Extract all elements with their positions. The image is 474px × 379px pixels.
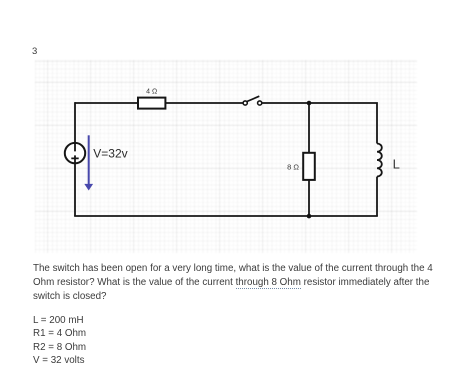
voltage source inner leads and plus: [71, 143, 78, 163]
voltage source V1 circle: [65, 143, 85, 163]
junction node top: [307, 101, 312, 106]
wire right below coil: [376, 177, 378, 216]
current arrow (blue): [88, 135, 90, 185]
resistor R1 4 Ohm: [138, 98, 165, 109]
wire bottom: [74, 215, 378, 217]
svg-text:L: L: [393, 157, 400, 172]
wire between R1 and switch: [165, 102, 243, 104]
switch S1 contact right: [258, 101, 262, 105]
junction node bottom: [307, 214, 312, 219]
wire middle branch bottom: [308, 180, 310, 216]
switch S1 blade: [247, 96, 259, 101]
switch S1 contact left: [243, 101, 247, 105]
grid canvas: [35, 60, 417, 253]
svg-text:4 Ω: 4 Ω: [146, 88, 157, 95]
wire top-left horizontal: [75, 102, 138, 104]
svg-text:8 Ω: 8 Ω: [287, 163, 299, 172]
problem number 3: [32, 47, 37, 57]
svg-text:V=32v: V=32v: [93, 146, 127, 160]
wire switch to top-right corner: [262, 102, 378, 143]
given values list: [33, 314, 86, 368]
wire left vertical: [74, 102, 76, 216]
resistor R2 8 Ohm: [303, 153, 315, 180]
wire middle branch top: [308, 103, 310, 153]
inductor L coil: [377, 144, 382, 177]
question paragraph: [33, 262, 433, 304]
